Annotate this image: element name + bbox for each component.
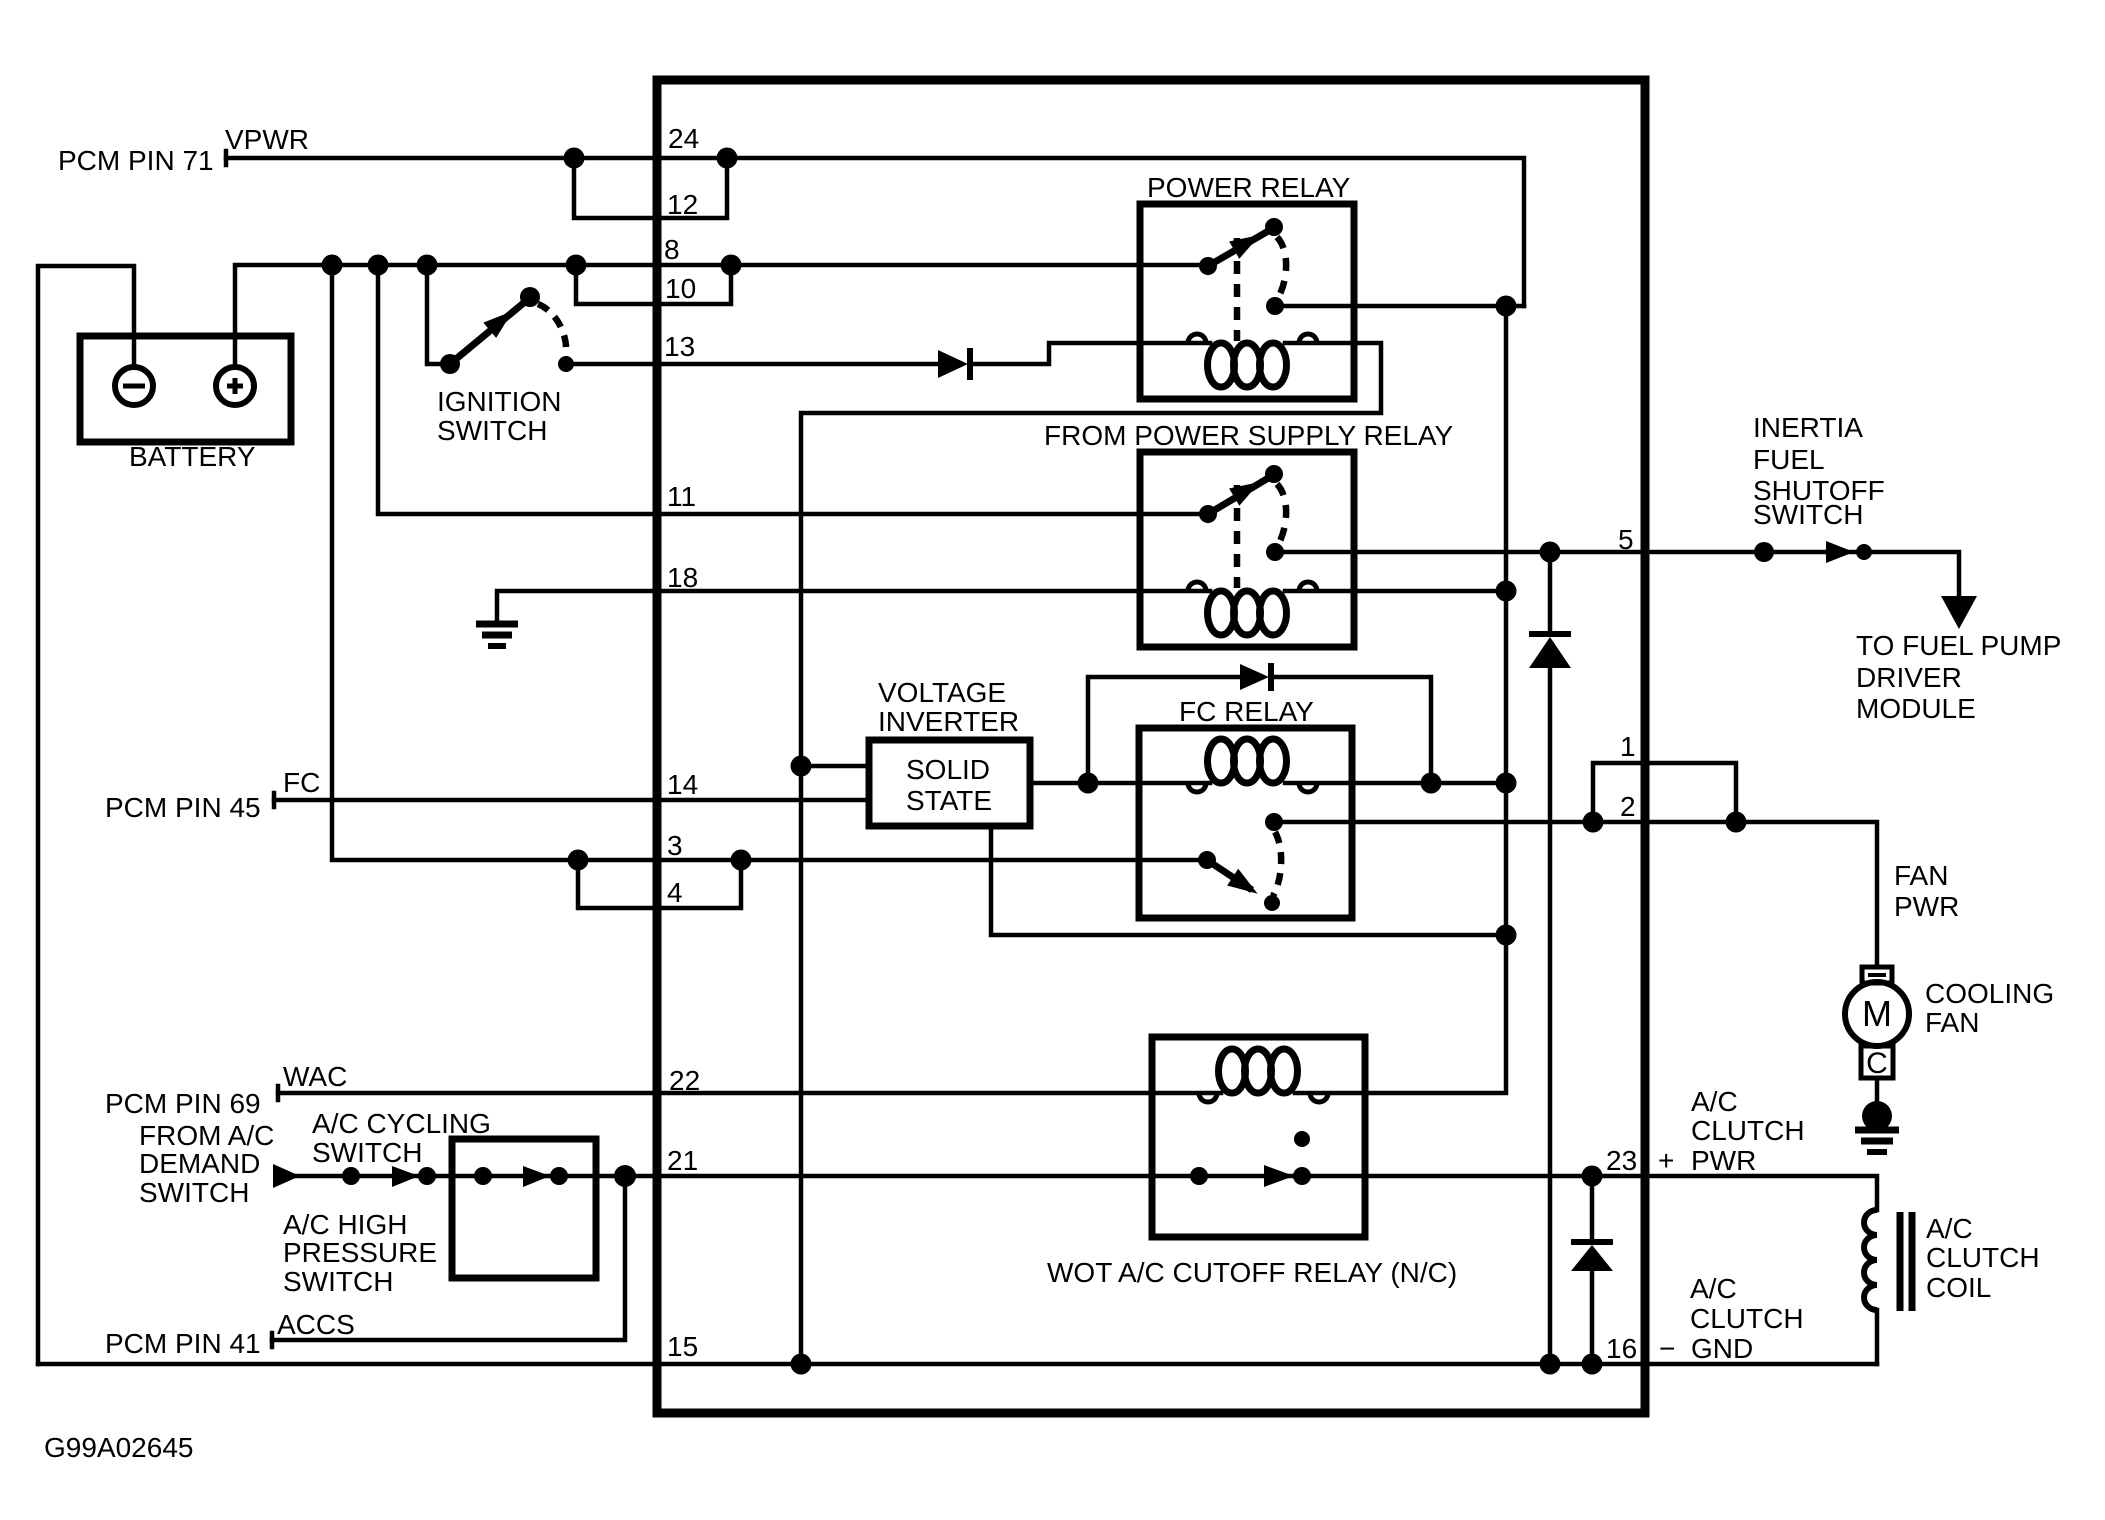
svg-text:CLUTCH: CLUTCH (1690, 1303, 1804, 1334)
WOT relay coil (1219, 1049, 1298, 1093)
svg-text:STATE: STATE (906, 785, 992, 816)
svg-text:DEMAND: DEMAND (139, 1148, 260, 1179)
A/C high pressure switch arrow (523, 1166, 550, 1187)
wire clutch coil bottom to ground bus (1875, 1310, 1880, 1364)
wire 5 branch to diode (1548, 552, 1553, 634)
wire battery positive to wire 8 (235, 265, 1208, 366)
power relay coil (1208, 343, 1287, 387)
wire end tick PCM PIN 71 (224, 151, 229, 165)
svg-text:TO FUEL PUMP: TO FUEL PUMP (1856, 630, 2061, 661)
svg-text:INVERTER: INVERTER (878, 706, 1019, 737)
svg-text:−: − (1659, 1333, 1675, 1364)
inertia switch contact dot left (1754, 542, 1774, 562)
svg-text:ACCS: ACCS (277, 1309, 355, 1340)
svg-text:M: M (1862, 993, 1892, 1034)
junction node wire8 ignition (417, 255, 438, 276)
svg-text:18: 18 (667, 562, 698, 593)
wire node vertical to WOT coil (1295, 306, 1506, 1093)
power relay box (1140, 204, 1354, 399)
svg-text:PCM PIN 69: PCM PIN 69 (105, 1088, 261, 1119)
wire solid state lower output (991, 826, 1506, 935)
junction node wire23 diode (1582, 1166, 1603, 1187)
junction node wire21 a (342, 1167, 360, 1185)
junction node power relay output (1496, 296, 1517, 317)
wire power supply relay coil to node (1285, 589, 1506, 594)
wire clutch diode branch (1590, 1176, 1595, 1364)
junction node solid state bottom (1496, 925, 1517, 946)
svg-text:FC RELAY: FC RELAY (1179, 696, 1314, 727)
svg-text:A/C CYCLING: A/C CYCLING (312, 1108, 491, 1139)
svg-text:GND: GND (1691, 1333, 1753, 1364)
A/C high pressure switch box (452, 1139, 596, 1278)
wire power relay coil exit (801, 343, 1381, 1364)
svg-text:SWITCH: SWITCH (1753, 499, 1863, 530)
junction node wire8 batt (322, 255, 343, 276)
diode FC coil bypass (1240, 663, 1271, 691)
power supply relay coil humps (1188, 582, 1317, 591)
svg-text:23: 23 (1606, 1145, 1637, 1176)
wire loop pin 4 (578, 860, 741, 908)
wire loop pin 10 (576, 265, 731, 304)
svg-text:SWITCH: SWITCH (437, 415, 547, 446)
junction node wire8 loop10 left (566, 255, 587, 276)
wire end tick PCM PIN 45 (272, 793, 277, 807)
A/C high pressure switch contact dot right (550, 1167, 568, 1185)
cooling fan ground ball (1862, 1101, 1892, 1131)
svg-text:C: C (1866, 1047, 1888, 1080)
svg-text:16: 16 (1606, 1333, 1637, 1364)
svg-text:POWER RELAY: POWER RELAY (1147, 172, 1351, 203)
wire 14 FC from PCM PIN 45 (274, 798, 869, 803)
svg-text:VPWR: VPWR (225, 124, 309, 155)
svg-text:A/C: A/C (1926, 1213, 1973, 1244)
inertia switch arrow (1826, 541, 1854, 563)
svg-text:PWR: PWR (1894, 891, 1959, 922)
svg-text:21: 21 (667, 1145, 698, 1176)
svg-text:3: 3 (667, 830, 683, 861)
wire 13 ignition to diode (566, 362, 938, 367)
wire fan motor to ground (1875, 1078, 1880, 1101)
power supply relay switch (1199, 465, 1286, 588)
svg-text:A/C HIGH: A/C HIGH (283, 1209, 407, 1240)
battery terminal positive (216, 367, 254, 405)
svg-text:FROM A/C: FROM A/C (139, 1120, 274, 1151)
svg-text:MODULE: MODULE (1856, 693, 1976, 724)
ignition switch (440, 287, 574, 374)
WOT relay switch (1190, 1131, 1311, 1187)
junction node wire2 loop1 left (1583, 812, 1604, 833)
WOT A/C cutoff relay box (1152, 1037, 1365, 1237)
A/C clutch coil windings (1864, 1210, 1877, 1310)
wire 5 power supply relay output to inertia switch (1275, 552, 1959, 598)
junction node solid state input (791, 756, 812, 777)
svg-text:SWITCH: SWITCH (312, 1137, 422, 1168)
svg-text:PCM PIN 41: PCM PIN 41 (105, 1328, 261, 1359)
junction node wire5 diode (1540, 542, 1561, 563)
wire ignition switch feed (427, 265, 450, 364)
svg-text:8: 8 (664, 234, 680, 265)
wire 3 to FC relay contact (332, 265, 1207, 860)
svg-text:SWITCH: SWITCH (283, 1266, 393, 1297)
junction node wire2 loop1 right (1726, 812, 1747, 833)
A/C clutch plates (1900, 1212, 1912, 1311)
voltage inverter solid state box (869, 740, 1030, 826)
ground symbol pin 18 (476, 624, 518, 646)
battery box (80, 336, 291, 442)
svg-text:INERTIA: INERTIA (1753, 412, 1863, 443)
svg-text:1: 1 (1620, 731, 1636, 762)
power relay coil humps (1188, 334, 1317, 343)
cooling fan motor body (1845, 982, 1909, 1046)
FC relay coil humps (1188, 783, 1317, 792)
wire 2 FC relay output to fan (1274, 822, 1877, 967)
junction node wire3 loop4 right (731, 850, 752, 871)
cooling fan ground bars (1855, 1130, 1899, 1152)
svg-text:2: 2 (1620, 791, 1636, 822)
wire end tick PCM PIN 41 (270, 1333, 275, 1347)
svg-text:22: 22 (669, 1065, 700, 1096)
cooling fan motor terminal (1862, 967, 1892, 983)
wire 13 diode to power relay coil (972, 343, 1210, 364)
svg-text:FUEL: FUEL (1753, 444, 1825, 475)
svg-text:PCM PIN 71: PCM PIN 71 (58, 145, 214, 176)
diode wire5 to ground bus (1529, 634, 1571, 668)
PCM connector big box (657, 80, 1645, 1413)
svg-text:FROM POWER SUPPLY RELAY: FROM POWER SUPPLY RELAY (1044, 420, 1454, 451)
svg-text:DRIVER: DRIVER (1856, 662, 1962, 693)
battery terminal negative (115, 367, 153, 405)
wire battery negative to ground bus (38, 266, 134, 1364)
svg-text:IGNITION: IGNITION (437, 386, 561, 417)
svg-text:COIL: COIL (1926, 1272, 1991, 1303)
svg-text:G99A02645: G99A02645 (44, 1432, 193, 1463)
svg-text:4: 4 (667, 877, 683, 908)
power supply relay coil (1208, 591, 1287, 635)
svg-text:11: 11 (667, 481, 696, 512)
svg-text:14: 14 (667, 769, 698, 800)
svg-text:COOLING: COOLING (1925, 978, 2054, 1009)
junction node solid state output (1078, 773, 1099, 794)
diode A/C clutch flyback (1571, 1242, 1613, 1271)
svg-text:BATTERY: BATTERY (129, 441, 256, 472)
junction node wire3 loop4 left (568, 850, 589, 871)
svg-text:FAN: FAN (1925, 1007, 1979, 1038)
svg-text:+: + (1658, 1145, 1674, 1176)
svg-text:5: 5 (1618, 524, 1634, 555)
wire loop pin 1 (1593, 763, 1736, 822)
A/C demand input arrow (273, 1164, 300, 1188)
diode on wire 13 (938, 348, 970, 380)
svg-text:WOT A/C CUTOFF RELAY (N/C): WOT A/C CUTOFF RELAY (N/C) (1047, 1257, 1457, 1288)
svg-text:12: 12 (667, 189, 698, 220)
svg-text:SOLID: SOLID (906, 754, 990, 785)
junction node coil line pin18 (1496, 581, 1517, 602)
svg-text:24: 24 (668, 123, 699, 154)
A/C cycling switch arrow (392, 1166, 419, 1187)
A/C high pressure switch contact dot left (474, 1167, 492, 1185)
junction node bus diode2 (1540, 1354, 1561, 1375)
svg-text:PRESSURE: PRESSURE (283, 1237, 437, 1268)
junction node wire21 accs (614, 1165, 636, 1187)
svg-text:PWR: PWR (1691, 1145, 1756, 1176)
svg-text:CLUTCH: CLUTCH (1691, 1115, 1805, 1146)
junction node wire8 loop10 right (721, 255, 742, 276)
junction node wire24 right (717, 148, 738, 169)
inertia switch contact dot right (1856, 544, 1872, 560)
FC relay switch (1198, 813, 1283, 911)
svg-text:A/C: A/C (1690, 1273, 1737, 1304)
wire loop pin 12 (574, 158, 727, 218)
arrow to fuel pump driver module (1941, 596, 1977, 629)
svg-text:15: 15 (667, 1331, 698, 1362)
wire FC flyback diode loop (1088, 677, 1431, 783)
svg-text:FC: FC (283, 767, 320, 798)
wire 22 WAC to WOT relay coil (278, 1091, 1221, 1096)
wire ground bus pins 15/16 (38, 1362, 1877, 1367)
junction node bus pin coil return (791, 1354, 812, 1375)
svg-text:FAN: FAN (1894, 860, 1948, 891)
junction node FC diode right (1421, 773, 1442, 794)
wire 18 ground to relay coil (497, 591, 1210, 622)
wire VPWR pin 24 from PCM PIN 71 (226, 158, 1524, 306)
svg-text:SWITCH: SWITCH (139, 1177, 249, 1208)
svg-text:WAC: WAC (283, 1061, 347, 1092)
cooling fan C terminal box (1861, 1046, 1893, 1078)
junction node wire24 left (564, 148, 585, 169)
wire power relay output (1275, 304, 1524, 309)
wire 21/23 A/C demand to clutch (297, 1176, 1877, 1210)
wire ACCS from PCM PIN 41 (272, 1176, 625, 1340)
from power supply relay box (1140, 452, 1354, 647)
FC relay coil (1208, 739, 1287, 783)
junction node FC coil node (1496, 773, 1517, 794)
svg-text:PCM PIN 45: PCM PIN 45 (105, 792, 261, 823)
svg-text:CLUTCH: CLUTCH (1926, 1242, 2040, 1273)
wire 11 to power supply relay contact (378, 265, 1208, 514)
wire FC coil to node (1285, 781, 1506, 786)
FC relay box (1139, 728, 1352, 918)
svg-text:10: 10 (665, 273, 696, 304)
wire diode to ground bus (1548, 666, 1553, 1364)
svg-text:13: 13 (664, 331, 695, 362)
junction node bus diode3 (1582, 1354, 1603, 1375)
A/C cycling switch dot (418, 1167, 436, 1185)
wire solid state output to FC coil (1030, 781, 1210, 786)
power relay switch (1199, 218, 1286, 341)
svg-text:A/C: A/C (1691, 1086, 1738, 1117)
svg-text:VOLTAGE: VOLTAGE (878, 677, 1006, 708)
wire end tick PCM PIN 69 (276, 1086, 281, 1100)
wire solid state upper input (801, 764, 869, 769)
WOT relay coil humps (1199, 1093, 1328, 1102)
junction node wire8 b (368, 255, 389, 276)
